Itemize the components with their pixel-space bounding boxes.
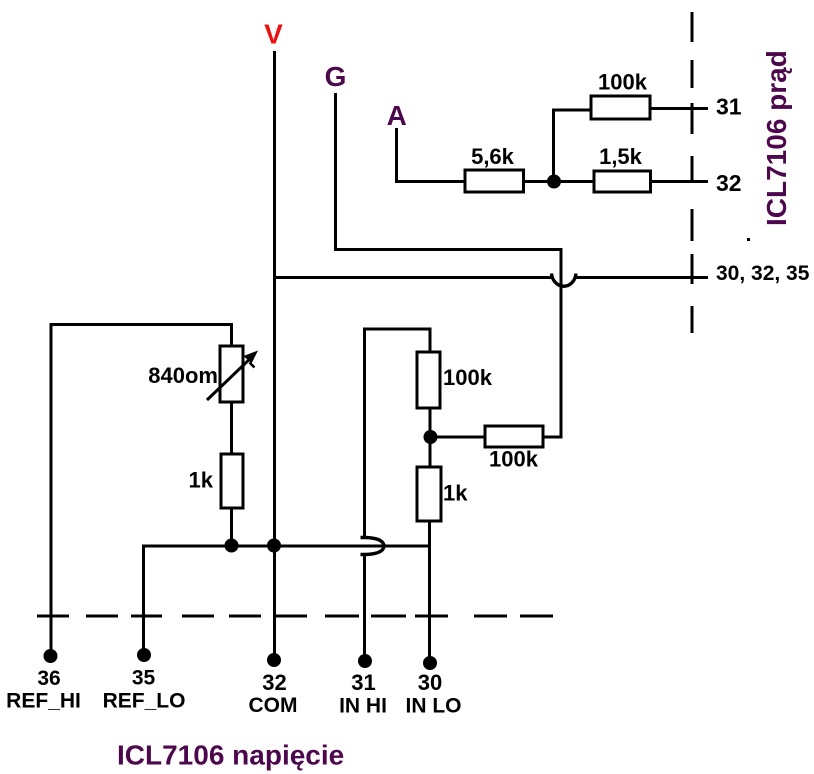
svg-text:32: 32	[716, 170, 742, 196]
svg-text:32: 32	[262, 670, 286, 695]
resistor 100k (vertical)	[417, 352, 440, 408]
dashed IC boundary (voltage side, horizontal)	[37, 615, 553, 618]
svg-text:REF_HI: REF_HI	[6, 690, 81, 713]
svg-text:31: 31	[351, 670, 375, 695]
svg-text:840om: 840om	[148, 363, 218, 388]
wire 100k to node	[429, 408, 432, 440]
wire REF_HI riser	[50, 323, 53, 658]
wire top to 840om	[230, 323, 233, 346]
bus 30,32,35 (left of hop)	[276, 276, 552, 279]
wire 840om to 1k	[230, 402, 233, 454]
pin 30 terminal dot	[423, 656, 437, 670]
pin 36 terminal dot	[44, 649, 58, 663]
wire J1 to 1,5k	[554, 180, 594, 183]
dashed IC boundary (current side, vertical)	[691, 12, 694, 333]
pin 32 terminal dot	[267, 653, 281, 667]
svg-text:REF_LO: REF_LO	[103, 690, 186, 713]
wire 1k to bottom bus	[230, 508, 233, 547]
wire A vertical	[395, 128, 398, 183]
svg-text:G: G	[325, 61, 347, 92]
svg-text:A: A	[387, 100, 407, 131]
node dot (1k / bottom bus)	[225, 539, 239, 553]
resistor 1k (left)	[221, 454, 243, 508]
svg-text:ICL7106 napięcie: ICL7106 napięcie	[117, 740, 344, 771]
svg-text:35: 35	[132, 667, 156, 690]
wire G horizontal	[334, 248, 563, 251]
wire node to 100k horizontal	[430, 436, 485, 439]
resistor 100k (top)	[591, 96, 650, 119]
variable resistor 840om (arrow)	[207, 355, 254, 400]
wire IN HI top horizontal	[363, 328, 432, 331]
wire top to 100k vertical	[429, 328, 432, 353]
svg-text:5,6k: 5,6k	[471, 144, 515, 169]
pin 31 terminal dot	[358, 654, 372, 668]
svg-text:100k: 100k	[598, 70, 648, 95]
wire 100k horiz to G drop	[543, 436, 563, 439]
wire IN HI riser	[363, 328, 366, 538]
svg-text:31: 31	[716, 94, 742, 120]
svg-text:100k: 100k	[443, 365, 493, 390]
wire node to 1k (right)	[429, 437, 432, 467]
resistor 1k (right)	[417, 467, 441, 521]
svg-text:ICL7106 prąd: ICL7106 prąd	[761, 50, 792, 226]
svg-text:30: 30	[418, 670, 442, 695]
wire bus corner down to REF_LO	[142, 545, 145, 657]
svg-text:100k: 100k	[489, 447, 539, 472]
wire 1,5k to pin 32	[651, 180, 709, 183]
variable resistor 840om (body)	[220, 346, 243, 402]
wire 5,6k to junction	[524, 180, 555, 183]
bottom bus (left segment)	[144, 545, 430, 548]
wire G vertical	[334, 93, 337, 251]
svg-text:36: 36	[37, 667, 60, 690]
pin 35 terminal dot	[137, 648, 151, 662]
wire hop (bus under G drop)	[552, 274, 577, 287]
svg-text:1k: 1k	[189, 468, 214, 493]
wire 100k to pin 31	[650, 107, 708, 110]
resistor 1,5k	[594, 171, 651, 192]
wire hop (IN HI over bottom bus)	[361, 538, 385, 555]
svg-text:COM: COM	[249, 694, 298, 717]
bus 30,32,35 (right of hop)	[576, 276, 708, 279]
wire V vertical rail	[273, 51, 276, 658]
wire REF_HI top horizontal	[50, 323, 234, 326]
resistor 100k (horizontal)	[485, 426, 543, 447]
wire A to 5,6k	[395, 180, 465, 183]
wire 1k down to pin 30	[428, 521, 431, 665]
stray dot	[747, 238, 750, 241]
svg-text:1k: 1k	[443, 481, 468, 506]
node junction dot J1	[547, 175, 561, 189]
node dot (divider mid)	[424, 430, 438, 444]
wire to 100k left	[552, 109, 591, 112]
svg-text:V: V	[264, 19, 283, 50]
resistor 5,6k	[465, 170, 524, 192]
wire J1 up	[552, 110, 555, 182]
node dot (V rail / bottom bus)	[267, 539, 281, 553]
svg-text:1,5k: 1,5k	[599, 144, 643, 169]
svg-text:30, 32, 35: 30, 32, 35	[716, 262, 810, 285]
svg-text:IN LO: IN LO	[406, 695, 462, 718]
svg-text:IN HI: IN HI	[339, 695, 387, 718]
wire G drop to divider	[560, 248, 563, 439]
wire IN HI riser lower	[363, 555, 366, 664]
